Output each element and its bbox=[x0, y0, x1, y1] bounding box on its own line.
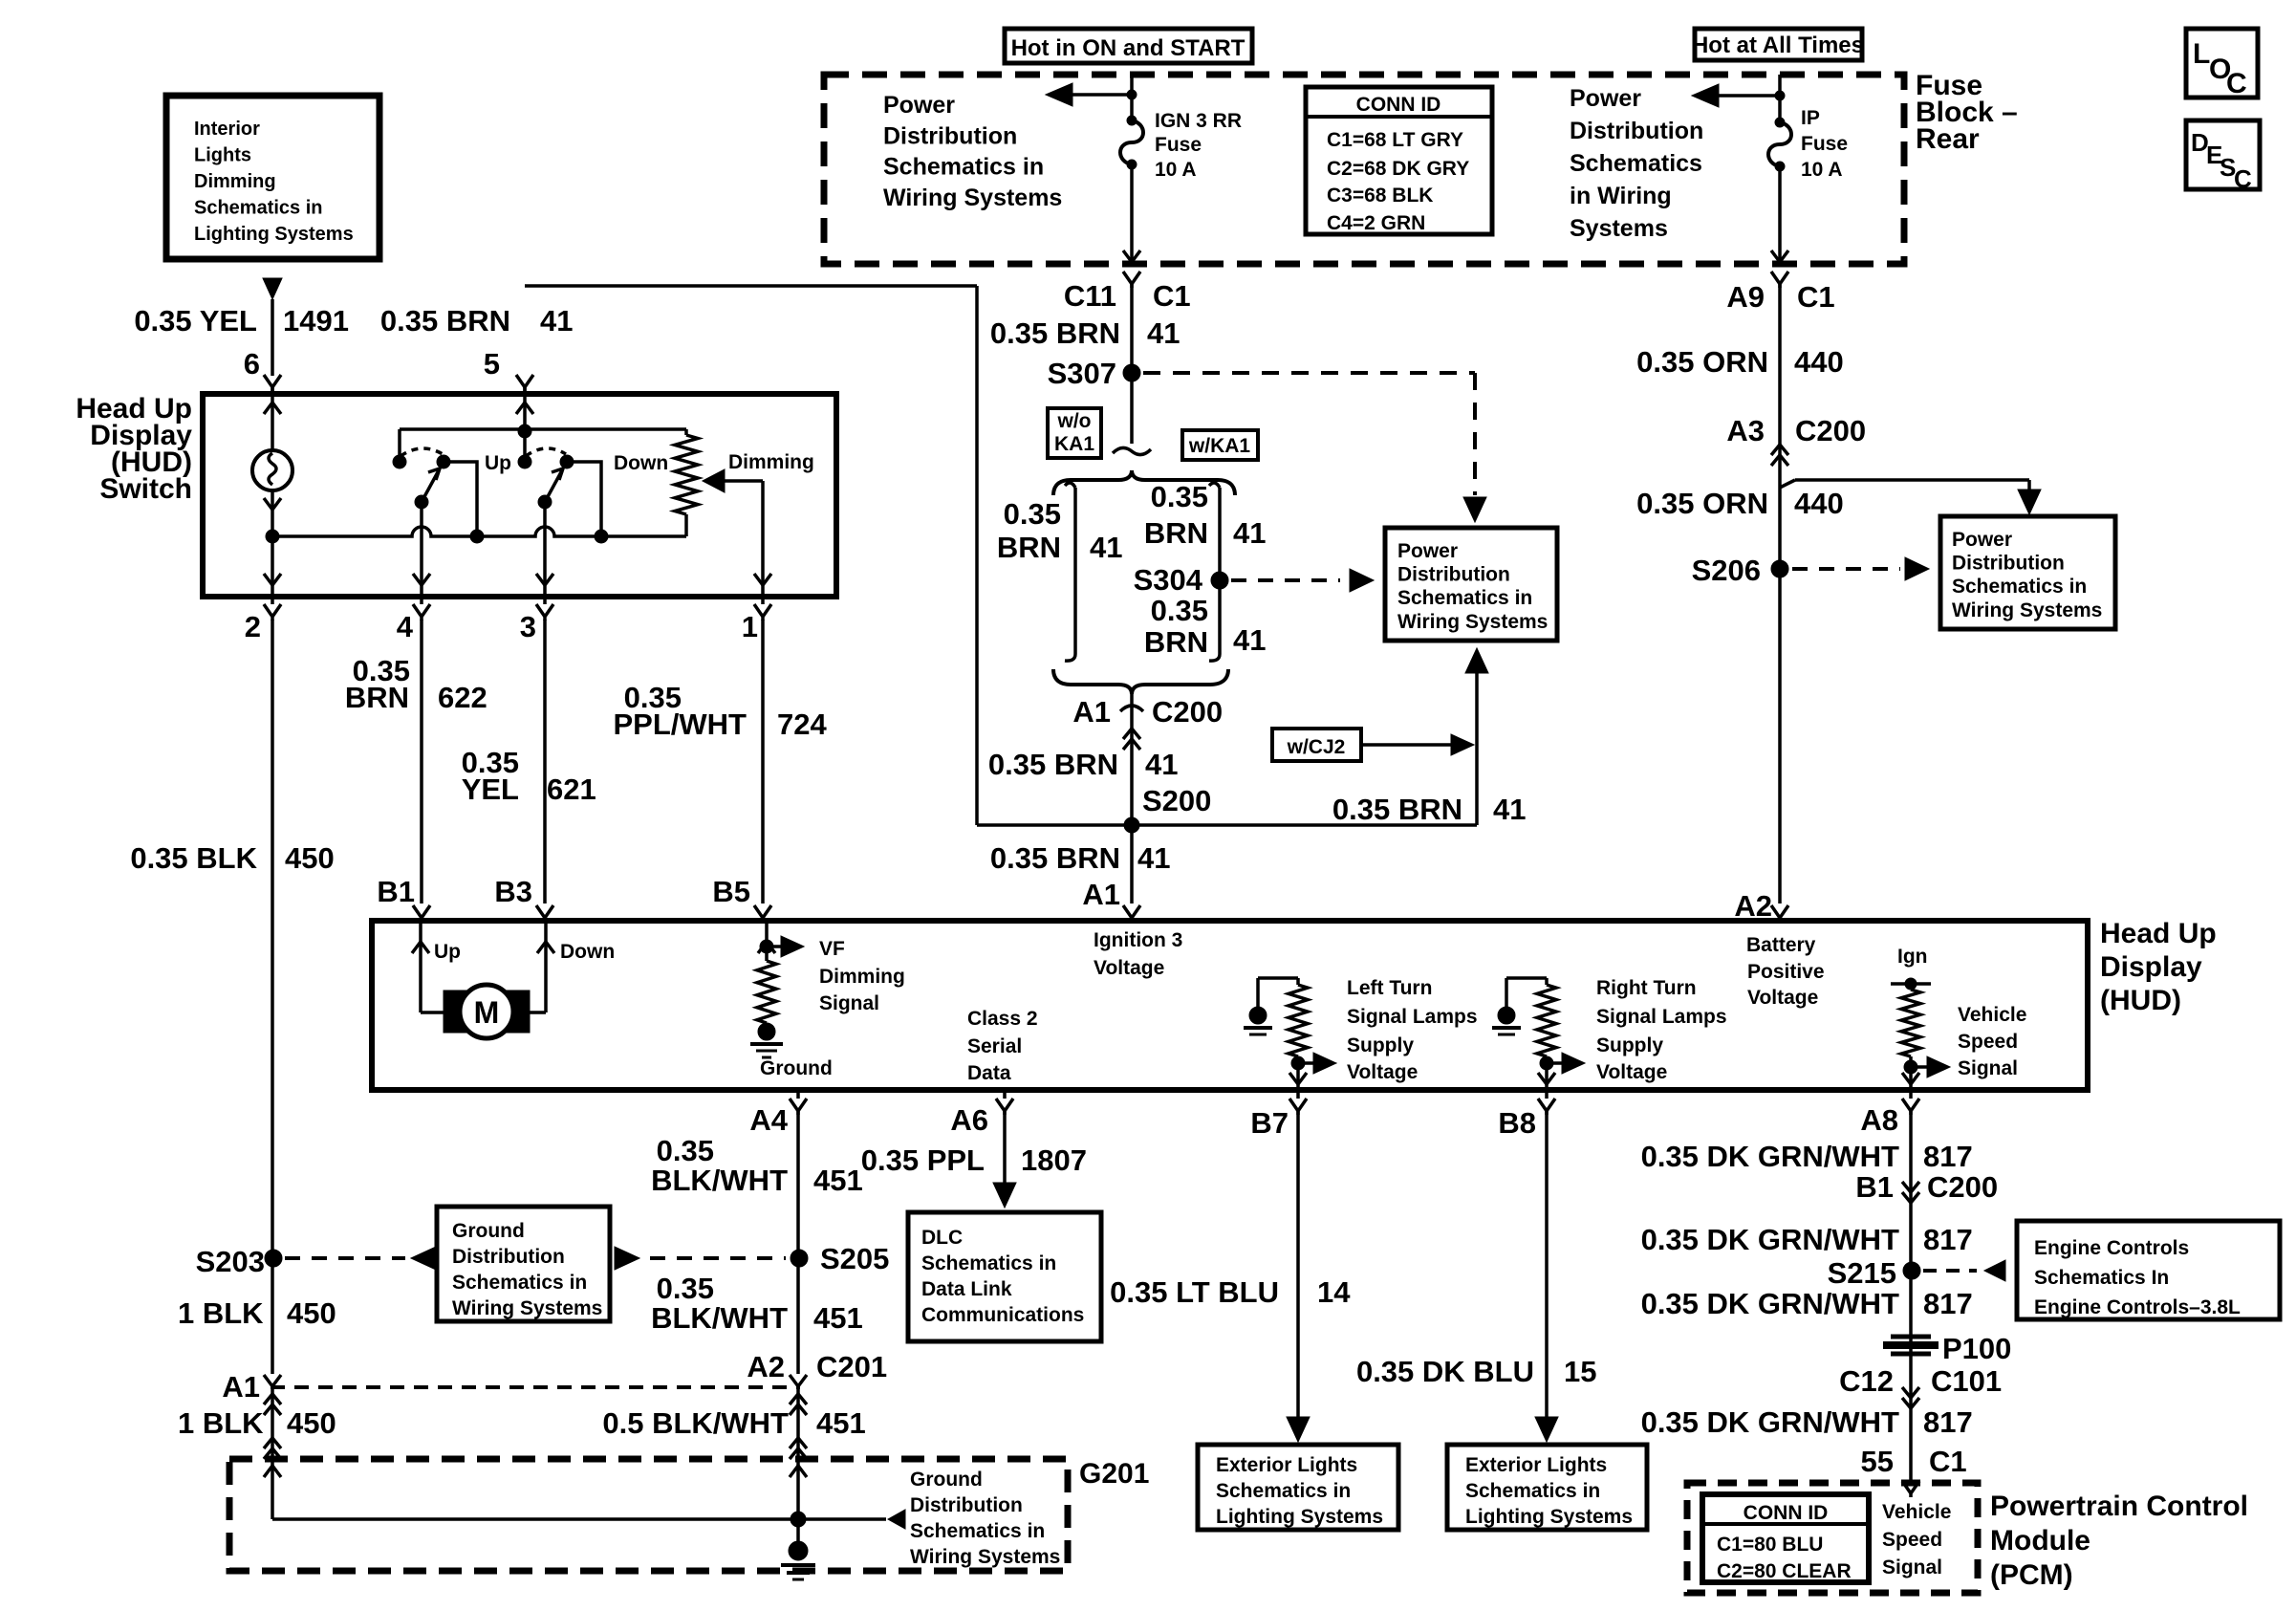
svg-text:451: 451 bbox=[813, 1164, 863, 1197]
svg-text:Data: Data bbox=[967, 1062, 1011, 1084]
svg-text:Module: Module bbox=[1990, 1525, 2090, 1557]
svg-text:0.35 ORN: 0.35 ORN bbox=[1636, 487, 1768, 520]
svg-text:15: 15 bbox=[1564, 1355, 1596, 1388]
svg-text:A1: A1 bbox=[222, 1370, 260, 1404]
svg-text:Battery: Battery bbox=[1746, 934, 1816, 956]
svg-text:Down: Down bbox=[614, 452, 668, 474]
svg-text:Signal: Signal bbox=[1958, 1057, 2018, 1079]
svg-text:451: 451 bbox=[816, 1406, 866, 1440]
svg-text:Ground: Ground bbox=[910, 1469, 983, 1491]
svg-text:Schematics in: Schematics in bbox=[1465, 1480, 1600, 1502]
svg-text:S215: S215 bbox=[1828, 1256, 1896, 1290]
svg-text:IP: IP bbox=[1801, 107, 1820, 129]
svg-text:C2=68 DK GRY: C2=68 DK GRY bbox=[1327, 158, 1469, 180]
svg-text:Wiring Systems: Wiring Systems bbox=[1397, 611, 1548, 633]
svg-text:Schematics in: Schematics in bbox=[1216, 1480, 1351, 1502]
svg-text:Ground: Ground bbox=[452, 1220, 525, 1242]
svg-text:Ign: Ign bbox=[1897, 946, 1928, 968]
svg-text:Lighting Systems: Lighting Systems bbox=[194, 224, 354, 245]
svg-text:4: 4 bbox=[397, 610, 414, 643]
svg-text:S304: S304 bbox=[1134, 563, 1203, 597]
svg-text:Distribution: Distribution bbox=[1570, 118, 1703, 144]
svg-text:Engine Controls: Engine Controls bbox=[2034, 1237, 2189, 1259]
svg-text:Serial: Serial bbox=[967, 1035, 1022, 1057]
svg-text:817: 817 bbox=[1923, 1405, 1973, 1439]
svg-text:Rear: Rear bbox=[1916, 123, 1980, 155]
svg-text:Voltage: Voltage bbox=[1347, 1061, 1418, 1083]
svg-text:Schematics in: Schematics in bbox=[1397, 587, 1532, 609]
svg-text:0.35 ORN: 0.35 ORN bbox=[1636, 345, 1768, 379]
svg-text:A6: A6 bbox=[950, 1103, 988, 1137]
svg-text:S203: S203 bbox=[196, 1245, 265, 1278]
svg-text:6: 6 bbox=[244, 347, 260, 381]
svg-text:S206: S206 bbox=[1692, 554, 1761, 587]
svg-text:Schematics in: Schematics in bbox=[883, 154, 1044, 181]
svg-text:0.5 BLK/WHT: 0.5 BLK/WHT bbox=[602, 1406, 789, 1440]
svg-text:w/o: w/o bbox=[1057, 410, 1092, 432]
svg-text:Lighting Systems: Lighting Systems bbox=[1216, 1506, 1383, 1528]
svg-text:BLK/WHT: BLK/WHT bbox=[651, 1301, 788, 1335]
svg-text:0.35 BRN: 0.35 BRN bbox=[380, 304, 510, 337]
svg-text:41: 41 bbox=[1090, 531, 1122, 564]
svg-text:Vehicle: Vehicle bbox=[1882, 1501, 1951, 1523]
svg-text:Head Up: Head Up bbox=[2100, 918, 2217, 949]
svg-text:Distribution: Distribution bbox=[883, 122, 1017, 149]
svg-text:YEL: YEL bbox=[462, 773, 519, 806]
svg-text:C1=68 LT GRY: C1=68 LT GRY bbox=[1327, 129, 1463, 151]
svg-text:Switch: Switch bbox=[99, 473, 192, 505]
svg-text:A1: A1 bbox=[1082, 878, 1120, 911]
svg-text:Distribution: Distribution bbox=[910, 1494, 1023, 1516]
svg-text:M: M bbox=[474, 995, 500, 1030]
svg-text:C1=80 BLU: C1=80 BLU bbox=[1717, 1534, 1823, 1556]
svg-text:A9: A9 bbox=[1726, 280, 1765, 314]
svg-text:Ignition 3: Ignition 3 bbox=[1094, 929, 1182, 951]
svg-text:Class 2: Class 2 bbox=[967, 1008, 1038, 1030]
svg-text:Voltage: Voltage bbox=[1596, 1061, 1667, 1083]
svg-text:Engine Controls–3.8L: Engine Controls–3.8L bbox=[2034, 1296, 2241, 1318]
svg-text:Hot at All Times: Hot at All Times bbox=[1692, 33, 1864, 58]
svg-text:C200: C200 bbox=[1927, 1170, 1998, 1204]
svg-text:817: 817 bbox=[1923, 1287, 1973, 1320]
svg-text:A1: A1 bbox=[1072, 695, 1111, 729]
svg-text:Speed: Speed bbox=[1958, 1031, 2018, 1053]
svg-text:Powertrain Control: Powertrain Control bbox=[1990, 1491, 2248, 1522]
svg-text:C4=2 GRN: C4=2 GRN bbox=[1327, 212, 1425, 234]
svg-text:B3: B3 bbox=[494, 875, 532, 908]
svg-text:A8: A8 bbox=[1860, 1103, 1898, 1137]
svg-text:Power: Power bbox=[1570, 85, 1641, 112]
svg-text:440: 440 bbox=[1794, 345, 1844, 379]
svg-text:B7: B7 bbox=[1250, 1106, 1289, 1140]
svg-text:0.35 BRN: 0.35 BRN bbox=[988, 748, 1118, 781]
svg-text:C: C bbox=[2234, 164, 2252, 193]
svg-text:Dimming: Dimming bbox=[819, 966, 905, 988]
svg-text:Schematics: Schematics bbox=[1570, 150, 1702, 177]
svg-text:450: 450 bbox=[285, 841, 335, 875]
svg-text:5: 5 bbox=[484, 347, 500, 381]
svg-text:Wiring Systems: Wiring Systems bbox=[883, 185, 1062, 211]
svg-text:Exterior Lights: Exterior Lights bbox=[1465, 1454, 1607, 1476]
svg-text:817: 817 bbox=[1923, 1140, 1973, 1173]
svg-text:Voltage: Voltage bbox=[1094, 957, 1164, 979]
svg-text:Distribution: Distribution bbox=[1952, 553, 2065, 575]
svg-text:PPL/WHT: PPL/WHT bbox=[614, 708, 747, 741]
svg-text:Schematics in: Schematics in bbox=[452, 1272, 587, 1294]
svg-text:A2: A2 bbox=[747, 1350, 785, 1383]
svg-text:Speed: Speed bbox=[1882, 1529, 1942, 1551]
svg-text:A3: A3 bbox=[1726, 414, 1765, 447]
svg-text:41: 41 bbox=[540, 304, 573, 337]
svg-text:Schematics in: Schematics in bbox=[910, 1520, 1045, 1542]
svg-text:Voltage: Voltage bbox=[1747, 987, 1818, 1009]
svg-text:(PCM): (PCM) bbox=[1990, 1559, 2073, 1591]
svg-text:Up: Up bbox=[434, 941, 461, 963]
svg-text:41: 41 bbox=[1147, 316, 1180, 350]
svg-text:S307: S307 bbox=[1048, 357, 1116, 390]
svg-text:0.35 DK BLU: 0.35 DK BLU bbox=[1356, 1355, 1534, 1388]
svg-text:Supply: Supply bbox=[1596, 1034, 1663, 1056]
svg-text:w/KA1: w/KA1 bbox=[1188, 435, 1251, 457]
svg-text:C: C bbox=[2226, 68, 2247, 99]
svg-text:0.35 BRN: 0.35 BRN bbox=[990, 841, 1120, 875]
svg-text:Lights: Lights bbox=[194, 145, 251, 166]
svg-text:0.35: 0.35 bbox=[1151, 594, 1208, 627]
svg-text:B1: B1 bbox=[377, 875, 415, 908]
svg-text:BLK/WHT: BLK/WHT bbox=[651, 1164, 788, 1197]
svg-text:Hot in ON and START: Hot in ON and START bbox=[1011, 35, 1245, 61]
svg-text:in Wiring: in Wiring bbox=[1570, 183, 1672, 209]
svg-text:0.35 BRN: 0.35 BRN bbox=[990, 316, 1120, 350]
svg-text:A4: A4 bbox=[749, 1103, 788, 1137]
svg-text:Display: Display bbox=[2100, 951, 2202, 983]
svg-text:C1: C1 bbox=[1153, 279, 1191, 313]
svg-text:Fuse: Fuse bbox=[1801, 133, 1848, 155]
svg-text:BRN: BRN bbox=[1144, 516, 1208, 550]
svg-text:Schematics In: Schematics In bbox=[2034, 1267, 2169, 1289]
svg-text:41: 41 bbox=[1137, 841, 1170, 875]
svg-text:Wiring Systems: Wiring Systems bbox=[452, 1297, 602, 1319]
svg-text:C201: C201 bbox=[816, 1350, 887, 1383]
svg-text:A2: A2 bbox=[1734, 889, 1772, 923]
svg-text:41: 41 bbox=[1493, 793, 1526, 826]
svg-text:0.35 DK GRN/WHT: 0.35 DK GRN/WHT bbox=[1641, 1140, 1899, 1173]
svg-text:0.35 LT BLU: 0.35 LT BLU bbox=[1110, 1275, 1279, 1309]
svg-text:DLC: DLC bbox=[921, 1227, 963, 1249]
svg-text:1 BLK: 1 BLK bbox=[178, 1406, 264, 1440]
svg-text:0.35 DK GRN/WHT: 0.35 DK GRN/WHT bbox=[1641, 1287, 1899, 1320]
svg-text:440: 440 bbox=[1794, 487, 1844, 520]
svg-text:621: 621 bbox=[547, 773, 596, 806]
svg-text:C12: C12 bbox=[1839, 1364, 1894, 1398]
svg-text:Signal: Signal bbox=[819, 992, 879, 1014]
svg-text:C101: C101 bbox=[1931, 1364, 2002, 1398]
svg-text:2: 2 bbox=[245, 610, 261, 643]
svg-text:C3=68 BLK: C3=68 BLK bbox=[1327, 185, 1433, 207]
svg-text:C200: C200 bbox=[1795, 414, 1866, 447]
svg-text:Lighting Systems: Lighting Systems bbox=[1465, 1506, 1633, 1528]
svg-text:Data Link: Data Link bbox=[921, 1278, 1012, 1300]
svg-text:BRN: BRN bbox=[997, 531, 1061, 564]
svg-text:Up: Up bbox=[485, 452, 511, 474]
svg-text:1807: 1807 bbox=[1021, 1143, 1087, 1177]
svg-text:C1: C1 bbox=[1797, 280, 1835, 314]
svg-text:1: 1 bbox=[742, 610, 758, 643]
svg-text:3: 3 bbox=[520, 610, 536, 643]
svg-text:Signal Lamps: Signal Lamps bbox=[1347, 1006, 1478, 1028]
svg-text:622: 622 bbox=[438, 681, 487, 714]
svg-text:Distribution: Distribution bbox=[1397, 564, 1510, 586]
svg-text:0.35 DK GRN/WHT: 0.35 DK GRN/WHT bbox=[1641, 1405, 1899, 1439]
svg-text:VF: VF bbox=[819, 938, 845, 960]
svg-text:KA1: KA1 bbox=[1054, 433, 1094, 455]
svg-text:Interior: Interior bbox=[194, 119, 260, 140]
svg-text:B8: B8 bbox=[1498, 1106, 1536, 1140]
svg-text:IGN 3 RR: IGN 3 RR bbox=[1155, 110, 1242, 132]
svg-text:Signal: Signal bbox=[1882, 1557, 1942, 1578]
svg-text:Power: Power bbox=[1952, 529, 2012, 551]
svg-text:0.35: 0.35 bbox=[1004, 497, 1061, 531]
svg-text:724: 724 bbox=[777, 708, 827, 741]
svg-text:Communications: Communications bbox=[921, 1304, 1084, 1326]
svg-text:P100: P100 bbox=[1942, 1332, 2011, 1365]
svg-text:B5: B5 bbox=[712, 875, 750, 908]
svg-text:0.35 BLK: 0.35 BLK bbox=[130, 841, 257, 875]
svg-text:BRN: BRN bbox=[1144, 625, 1208, 659]
svg-text:Ground: Ground bbox=[760, 1057, 833, 1079]
svg-text:Supply: Supply bbox=[1347, 1034, 1414, 1056]
svg-text:Dimming: Dimming bbox=[728, 451, 814, 473]
svg-text:0.35: 0.35 bbox=[1151, 480, 1208, 513]
svg-text:450: 450 bbox=[287, 1296, 336, 1330]
svg-text:14: 14 bbox=[1317, 1275, 1351, 1309]
svg-text:41: 41 bbox=[1233, 623, 1266, 657]
svg-text:10 A: 10 A bbox=[1801, 159, 1843, 181]
svg-text:41: 41 bbox=[1233, 516, 1266, 550]
svg-text:Signal Lamps: Signal Lamps bbox=[1596, 1006, 1727, 1028]
svg-text:C1: C1 bbox=[1929, 1445, 1967, 1478]
svg-text:(HUD): (HUD) bbox=[2100, 985, 2181, 1016]
svg-text:Left Turn: Left Turn bbox=[1347, 977, 1432, 999]
svg-text:Wiring Systems: Wiring Systems bbox=[910, 1546, 1060, 1568]
svg-text:CONN ID: CONN ID bbox=[1356, 94, 1441, 116]
svg-text:451: 451 bbox=[813, 1301, 863, 1335]
svg-text:C200: C200 bbox=[1152, 695, 1223, 729]
svg-text:Vehicle: Vehicle bbox=[1958, 1004, 2026, 1026]
svg-text:Positive: Positive bbox=[1747, 961, 1825, 983]
svg-text:0.35 PPL: 0.35 PPL bbox=[861, 1143, 985, 1177]
svg-text:G201: G201 bbox=[1079, 1458, 1149, 1490]
svg-text:Systems: Systems bbox=[1570, 215, 1668, 242]
svg-text:41: 41 bbox=[1145, 748, 1178, 781]
svg-text:CONN ID: CONN ID bbox=[1744, 1502, 1829, 1524]
svg-text:0.35: 0.35 bbox=[657, 1134, 714, 1167]
svg-text:Right Turn: Right Turn bbox=[1596, 977, 1697, 999]
svg-text:1491: 1491 bbox=[283, 304, 349, 337]
svg-text:817: 817 bbox=[1923, 1223, 1973, 1256]
svg-text:Exterior Lights: Exterior Lights bbox=[1216, 1454, 1357, 1476]
svg-text:Fuse: Fuse bbox=[1155, 134, 1202, 156]
svg-text:0.35 DK GRN/WHT: 0.35 DK GRN/WHT bbox=[1641, 1223, 1899, 1256]
svg-text:Power: Power bbox=[883, 92, 955, 119]
svg-text:BRN: BRN bbox=[345, 681, 409, 714]
svg-text:Schematics in: Schematics in bbox=[921, 1252, 1056, 1274]
svg-text:55: 55 bbox=[1861, 1445, 1894, 1478]
svg-text:C2=80 CLEAR: C2=80 CLEAR bbox=[1717, 1560, 1852, 1582]
svg-text:Dimming: Dimming bbox=[194, 171, 276, 192]
svg-text:S205: S205 bbox=[820, 1242, 889, 1275]
svg-text:0.35 BRN: 0.35 BRN bbox=[1332, 793, 1462, 826]
svg-text:Power: Power bbox=[1397, 540, 1458, 562]
svg-text:C11: C11 bbox=[1064, 279, 1116, 313]
svg-text:450: 450 bbox=[287, 1406, 336, 1440]
svg-text:w/CJ2: w/CJ2 bbox=[1287, 736, 1346, 758]
svg-text:S200: S200 bbox=[1142, 784, 1211, 817]
svg-text:B1: B1 bbox=[1855, 1170, 1894, 1204]
svg-text:0.35: 0.35 bbox=[657, 1272, 714, 1305]
svg-text:1 BLK: 1 BLK bbox=[178, 1296, 264, 1330]
svg-text:10 A: 10 A bbox=[1155, 159, 1197, 181]
svg-text:0.35 YEL: 0.35 YEL bbox=[134, 304, 257, 337]
svg-text:Down: Down bbox=[560, 941, 615, 963]
svg-text:Schematics in: Schematics in bbox=[1952, 576, 2087, 598]
svg-text:Schematics in: Schematics in bbox=[194, 198, 323, 219]
svg-text:Wiring Systems: Wiring Systems bbox=[1952, 599, 2102, 621]
svg-text:Distribution: Distribution bbox=[452, 1246, 565, 1268]
svg-text:L: L bbox=[2193, 38, 2210, 70]
